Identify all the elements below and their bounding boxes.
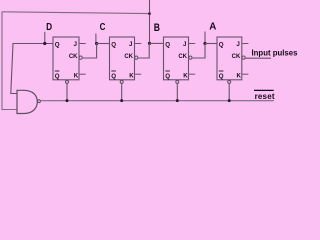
svg-text:J: J [129,41,133,48]
wire: input pulses into CK of A [245,57,271,59]
NAND output bubble [38,100,41,103]
junction dot node C [95,42,98,45]
flip-flop B CK bubble [189,56,192,59]
flip-flop D box [53,37,79,80]
svg-text:J: J [236,41,240,48]
junction dot on rail under B [176,99,179,102]
svg-text:Q: Q [219,41,224,48]
svg-text:reset: reset [255,92,275,101]
svg-text:K: K [237,72,242,79]
svg-text:Q: Q [165,41,170,48]
flip-flop A CLR bubble [228,80,231,83]
junction dot node A [203,42,206,45]
svg-text:K: K [129,72,134,79]
svg-text:Input pulses: Input pulses [252,49,299,58]
flip-flop D CK bubble [79,56,82,59]
flip-flop D K stub [80,73,86,75]
wire: Q of C down to CK of D [82,44,96,59]
flip-flop C CLR bubble [120,80,123,83]
svg-text:CK: CK [178,54,187,60]
node C label tick [95,34,97,44]
flip-flop C box [110,37,135,80]
wire: left vertical feedback wire down to NAND bottom input [2,12,17,110]
flip-flop B J stub [189,43,195,45]
reset overline [254,89,274,91]
wire: flip-flop A CLR to reset rail [228,83,230,100]
wire: Q of B down to CK of C [138,43,149,58]
flip-flop B K stub [189,73,195,75]
svg-text:B: B [154,22,160,34]
junction dot on rail under A [228,99,231,102]
wire: flip-flop B CLR to reset rail [176,83,178,100]
svg-text:Q: Q [111,41,116,48]
flip-flop C J stub [135,43,141,45]
svg-text:Q: Q [219,73,224,80]
svg-text:Q: Q [165,73,170,80]
svg-text:K: K [74,72,79,79]
flip-flop D CLR bubble [66,80,69,83]
flip-flop A box [217,37,242,80]
wire: flip-flop C CLR to reset rail [121,83,123,100]
flip-flop A J stub [242,43,248,45]
svg-text:CK: CK [232,54,241,60]
node D label tick [44,32,46,44]
NAND gate U1 [17,90,37,113]
flip-flop B box [164,37,189,80]
svg-text:J: J [183,41,187,48]
flip-flop C CK bubble [135,56,138,59]
node A label tick [204,32,206,44]
junction dot on rail under D [66,99,69,102]
svg-text:CK: CK [124,54,133,60]
junction dot node B [148,42,151,45]
svg-text:D: D [46,22,52,33]
svg-text:A: A [209,22,216,33]
wire: node C to Q pin of C [96,43,109,45]
wire: Q of flip-flop D to NAND top input [11,44,53,94]
svg-text:CK: CK [69,54,78,60]
flip-flop D J stub [80,43,86,45]
wire: reset rail from NAND output to right side [41,100,274,102]
wire: node A to Q pin of A [205,43,217,45]
flip-flop C K stub [135,73,141,75]
wire: node B vertical from top edge down to Q wire of flip-flop B [149,0,151,43]
wire: Q of A down to CK of B [192,44,205,59]
junction dot on rail under C [120,99,123,102]
junction dot at top wire / node B [148,12,151,15]
wire: node B to Q pin of B [150,42,164,44]
wire: flip-flop D CLR to reset rail [66,83,68,100]
svg-text:C: C [100,22,106,33]
svg-text:Q: Q [55,41,60,48]
flip-flop B CLR bubble [176,80,179,83]
svg-text:Q: Q [111,73,116,80]
junction dot node D [43,42,46,45]
svg-text:K: K [183,72,188,79]
svg-text:J: J [74,41,78,48]
flip-flop A CK bubble [242,56,245,59]
svg-text:Q: Q [55,73,60,80]
wire: feedback top wire from left corner to node B [2,12,150,14]
flip-flop A K stub [242,73,248,75]
